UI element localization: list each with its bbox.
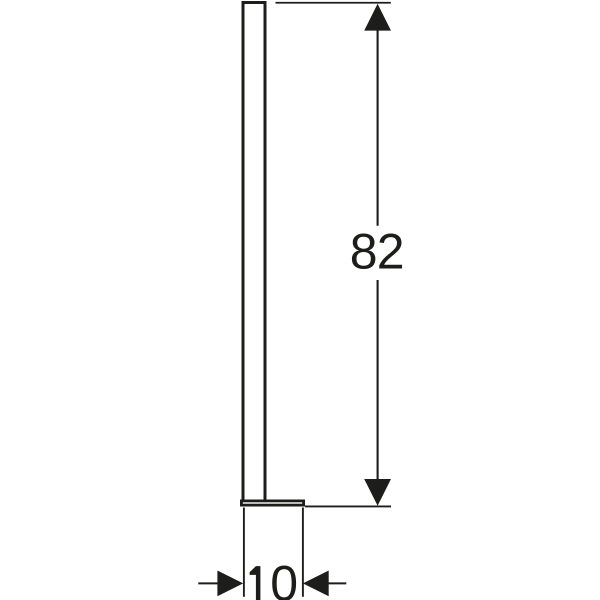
label 10 digit 1	[250, 566, 261, 600]
dimension line 82 upper segment	[377, 28, 379, 226]
top extension line	[276, 2, 391, 4]
right extension line 10	[302, 508, 304, 597]
arrowhead up	[364, 4, 391, 31]
svg-text:0: 0	[270, 555, 298, 600]
arrowhead left	[303, 571, 329, 597]
left arrow tail	[198, 582, 218, 584]
right arrow tail	[328, 582, 346, 584]
svg-text:82: 82	[350, 223, 404, 279]
profile strip body	[243, 3, 265, 502]
arrowhead right	[217, 571, 243, 597]
left extension line 10	[243, 508, 245, 597]
base flange plate	[241, 501, 303, 505]
bottom extension line	[305, 505, 391, 507]
arrowhead down	[364, 479, 391, 506]
dimension line 82 lower segment	[377, 280, 379, 480]
